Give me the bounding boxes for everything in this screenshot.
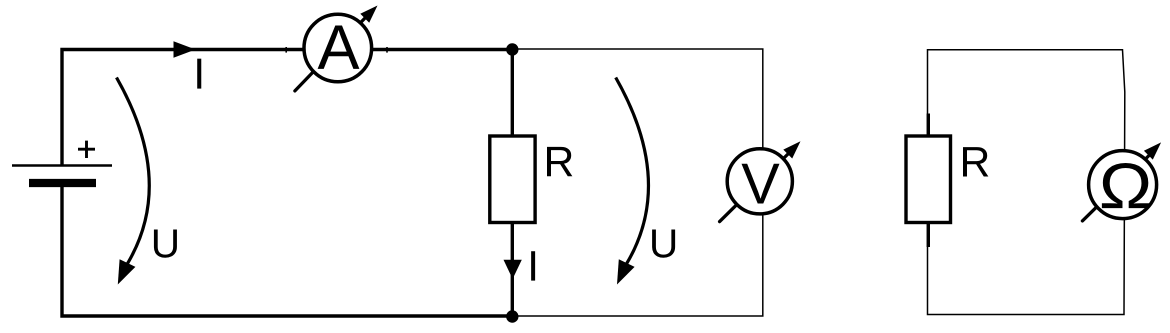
ammeter U1 circle: [304, 14, 372, 82]
voltage arrow U left (curved): [117, 78, 150, 264]
node top junction: [506, 43, 518, 55]
ammeter needle arrowhead: [360, 6, 377, 23]
ammeter U1 diagonal needle: [295, 17, 366, 91]
label U left: [154, 229, 177, 257]
voltage arrow U right head: [617, 259, 635, 284]
resistor R2 bottom lead: [927, 219, 930, 247]
ammeter letter A: [318, 26, 360, 69]
ohmmeter U3 circle: [1089, 151, 1157, 219]
resistor R2 top lead: [927, 114, 930, 141]
wire right circuit outline (thin): [928, 50, 1125, 315]
wire bottom+left-lower of main loop: [62, 183, 512, 316]
voltmeter U2 circle: [727, 149, 792, 214]
wire middle branch through R: [511, 50, 514, 317]
voltmeter letter V: [742, 164, 780, 204]
label I bottom: [531, 251, 535, 280]
current arrow on top wire: [174, 41, 196, 58]
label R right: [963, 147, 988, 176]
label U right: [652, 229, 675, 257]
wire cap tick left of ammeter: [285, 47, 287, 53]
current arrow below R: [504, 260, 522, 279]
wire cap tick right of ammeter: [386, 47, 388, 53]
wire top+left of main loop: [62, 50, 512, 166]
node bottom junction: [506, 310, 518, 322]
label R left: [547, 147, 572, 176]
voltage arrow U left head: [118, 259, 136, 284]
ohmmeter letter Omega: [1102, 163, 1149, 208]
ohmmeter U3 diagonal needle: [1082, 155, 1150, 221]
resistor R1 body: [490, 136, 535, 223]
ohmmeter needle arrowhead: [1144, 142, 1161, 159]
voltage arrow U right (curved): [616, 78, 649, 264]
label I top: [197, 59, 201, 89]
wire voltmeter loop (thin): [512, 49, 763, 316]
battery B1 plus plate (thin): [12, 164, 112, 166]
battery plus label: [78, 141, 95, 158]
voltmeter needle arrowhead: [783, 141, 800, 158]
battery B1 minus plate (thick): [29, 179, 96, 187]
voltmeter U2 diagonal needle: [720, 153, 789, 222]
resistor R2 body: [906, 136, 951, 223]
